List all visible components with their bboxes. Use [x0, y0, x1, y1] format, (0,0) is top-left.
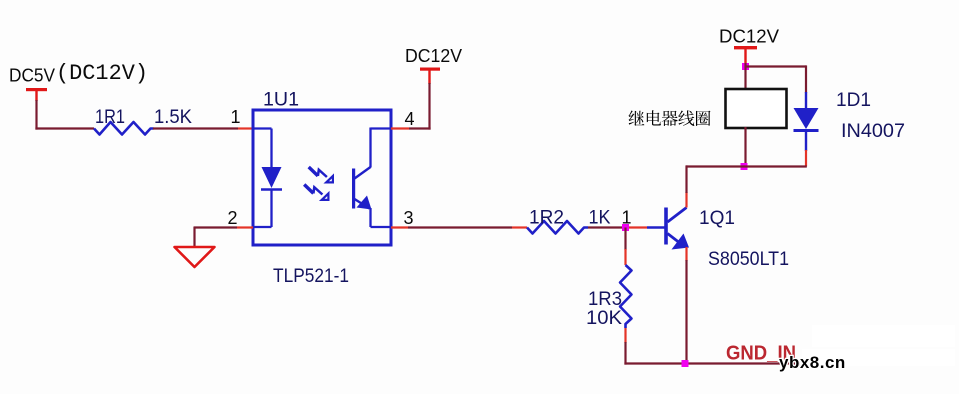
svg-text:4: 4	[405, 109, 415, 129]
wire R1 to U1 pin1	[153, 127, 252, 129]
power symbol DC5V	[9, 65, 56, 102]
svg-text:1R1: 1R1	[95, 107, 125, 128]
svg-text:1.5K: 1.5K	[154, 107, 192, 128]
wire R3 to GND_IN net	[624, 328, 800, 365]
wire U1 pin3 to R2	[391, 226, 527, 228]
light arrow upper	[309, 167, 333, 182]
wire from DC5V to R1	[35, 100, 94, 130]
junction node base/R3	[622, 224, 629, 231]
wire junction to R3	[624, 228, 626, 266]
svg-text:1R2: 1R2	[529, 208, 564, 229]
svg-text:1Q1: 1Q1	[699, 208, 735, 229]
light arrow lower	[304, 185, 328, 200]
junction node emitter/GND	[682, 360, 689, 367]
junction node relay/diode	[741, 163, 748, 170]
svg-text:S8050LT1: S8050LT1	[708, 248, 789, 270]
svg-text:10K: 10K	[586, 308, 622, 329]
wire Q1 collector to relay node	[685, 165, 687, 207]
ground symbol	[175, 247, 215, 267]
wire node to diode top	[745, 65, 807, 93]
svg-text:1D1: 1D1	[836, 90, 871, 111]
wire R2 to Q1 base	[588, 226, 647, 228]
op-to box U1	[253, 110, 391, 245]
wire Q1 emitter to GND_IN	[685, 247, 687, 365]
svg-text:DC12V: DC12V	[405, 45, 463, 66]
label relay coil (Chinese)	[629, 110, 711, 126]
svg-text:1: 1	[231, 107, 241, 127]
LED inside U1	[254, 129, 282, 228]
svg-text:1R3: 1R3	[588, 289, 622, 310]
svg-text:1U1: 1U1	[263, 90, 299, 111]
wire U1 pin2 to ground	[194, 227, 253, 249]
watermark background patch	[802, 325, 955, 366]
power symbol DC12V (relay)	[719, 26, 780, 64]
svg-text:3: 3	[404, 208, 414, 228]
diode D1	[794, 92, 819, 151]
resistor R2	[527, 221, 588, 234]
svg-text:DC5V: DC5V	[9, 65, 56, 86]
junction node DC12V	[742, 63, 749, 70]
wire DC12V to relay coil	[744, 63, 746, 90]
power symbol DC12V (U1)	[405, 45, 463, 84]
phototransistor inside U1	[352, 128, 391, 228]
wire DC12V to U1 pin4	[391, 83, 431, 130]
svg-text:TLP521-1: TLP521-1	[273, 265, 349, 287]
resistor R3	[620, 265, 632, 328]
svg-text:(DC12V): (DC12V)	[56, 61, 148, 86]
wire diode bottom to node	[686, 150, 807, 167]
svg-text:IN4007: IN4007	[841, 120, 905, 142]
transistor Q1	[647, 208, 689, 250]
resistor R1	[94, 122, 154, 135]
svg-text:ybx8.cn: ybx8.cn	[779, 353, 846, 372]
svg-text:2: 2	[228, 208, 238, 228]
svg-text:1K: 1K	[589, 208, 611, 229]
svg-text:DC12V: DC12V	[719, 26, 780, 47]
relay coil box	[726, 89, 787, 128]
wire relay coil to node	[744, 127, 746, 168]
